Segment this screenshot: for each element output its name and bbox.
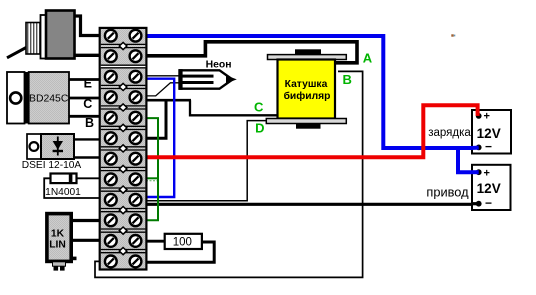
wire: black jumper row4 to row6 <box>146 100 166 138</box>
transistor U1 BD245C black bar <box>25 72 29 124</box>
terminal row 5 screws <box>105 112 142 124</box>
diode D2 1N4001 body <box>51 174 77 184</box>
svg-text:бифиляр: бифиляр <box>284 90 331 102</box>
terminal block divider with diamond <box>101 42 146 49</box>
neon lamp arrow tip <box>226 75 237 83</box>
terminal block divider with diamond <box>101 165 146 172</box>
wire: black thick from terminal row2 to coil top frame <box>146 42 357 63</box>
transistor U1 BD245C tab with hole <box>7 72 25 124</box>
svg-text:E: E <box>84 77 92 91</box>
wire: red from terminal row7 to battery1 plus <box>146 105 478 157</box>
terminal row 8 screws <box>105 173 142 185</box>
svg-text:Неон: Неон <box>206 59 232 70</box>
svg-text:C: C <box>254 100 264 115</box>
wire: node C line from row4 stub down to coil bottom flange <box>190 100 277 115</box>
terminal row 9 screws <box>105 194 142 206</box>
transistor U1 BD245C leads E C B <box>66 80 101 117</box>
neon lamp left bar <box>179 69 183 90</box>
svg-text:B: B <box>85 116 94 130</box>
svg-text:Катушка: Катушка <box>285 79 328 90</box>
terminal row 2 screws <box>105 50 142 62</box>
coil L1 top flange <box>268 55 347 60</box>
wire: blue thick from terminal row1 to batteries <box>146 36 479 172</box>
resistor R1 100 body <box>165 234 202 249</box>
terminal block divider with diamond <box>101 83 146 90</box>
svg-text:12V: 12V <box>477 181 501 196</box>
battery BT1 зарядка <box>472 110 511 154</box>
diode D1 DSEI leads <box>72 139 101 157</box>
wire: blue jumper row3 to row9 <box>146 79 174 197</box>
wire: faint dashed green <box>146 180 157 182</box>
svg-text:D: D <box>255 121 264 136</box>
svg-text:100: 100 <box>173 236 192 248</box>
transistor U1 BD245C body <box>29 72 69 124</box>
potentiometer R2 side stub <box>71 257 77 261</box>
terminal row 11 screws <box>105 235 142 247</box>
wire: node D thin line from coil bottom flange down and left to row9 wire <box>147 121 268 201</box>
transistor Q1 body <box>46 11 75 59</box>
wire: diagonal thin lead from strip row4 to neon lamp lower electrode <box>146 83 182 96</box>
wire stub blue into battery1 minus <box>471 146 479 150</box>
svg-text:зарядка: зарядка <box>428 127 471 139</box>
svg-text:привод: привод <box>426 185 469 200</box>
svg-text:+: + <box>484 111 490 123</box>
coil L1 body Катушка бифиляр <box>278 60 336 119</box>
terminal row 7 screws <box>105 153 142 165</box>
svg-text:LIN: LIN <box>49 239 66 250</box>
transistor Q1 heatsink diagonal lead <box>7 47 28 58</box>
potentiometer R2 body <box>47 214 71 262</box>
potentiometer R2 1K LIN leads to row10 row11 <box>69 221 101 241</box>
stray speck <box>451 34 453 36</box>
neon lamp electrode 1 <box>183 75 214 78</box>
potentiometer R2 bottom tab and prongs <box>53 262 66 266</box>
svg-text:1K: 1K <box>51 229 65 240</box>
coil L1 bottom flange <box>266 119 346 124</box>
terminal row 4 screws <box>105 91 142 103</box>
wire: green jumper row5 to row8 and lower <box>146 118 158 220</box>
svg-text:C: C <box>83 97 92 111</box>
resistor R1 100 left lead <box>146 240 167 243</box>
terminal block divider with diamond <box>101 104 146 111</box>
terminal block divider with diamond <box>101 186 146 193</box>
resistor R1 100 right lead loop to row12 <box>146 242 215 262</box>
svg-text:12V: 12V <box>477 126 501 141</box>
svg-text:1N4001: 1N4001 <box>45 187 81 198</box>
terminal block divider (double) <box>101 65 146 68</box>
wire: node B thin line from coil right down, along bottom, to row12 left <box>95 71 363 277</box>
terminal row 6 screws <box>105 132 142 144</box>
transistor Q1 lead top to row1 <box>73 16 101 36</box>
coil L1 bottom tab <box>296 124 321 129</box>
terminal row 1 screws <box>105 30 142 42</box>
transistor Q1 lead bottom to row2 <box>73 54 101 57</box>
svg-text:A: A <box>363 50 373 65</box>
wire: stub row4 <box>146 99 191 102</box>
neon lamp outline <box>180 70 233 88</box>
svg-text:BD245C: BD245C <box>29 94 69 105</box>
terminal row 12 screws <box>105 256 142 268</box>
diode D1 DSEI tab with hole <box>27 134 41 159</box>
terminal row 10 screws <box>105 214 142 226</box>
svg-text:+: + <box>484 167 490 179</box>
transistor Q1 mounting plate <box>41 15 47 59</box>
svg-text:B: B <box>343 72 352 87</box>
wire: thin lead from strip row3 to neon lamp top electrode <box>146 75 181 77</box>
terminal block divider with diamond <box>101 145 146 152</box>
wire: thick black row9 to battery2 minus <box>146 203 477 206</box>
diode D2 1N4001 left lead down to row9 left <box>44 178 101 198</box>
wire stub blue into battery2 plus <box>471 170 479 174</box>
svg-text:DSEI 12-10A: DSEI 12-10A <box>22 160 82 171</box>
coil L1 top tab <box>295 49 321 55</box>
diode D1 DSEI diode symbol <box>57 137 59 156</box>
terminal row 3 screws <box>105 71 142 83</box>
terminal block divider with diamond <box>101 227 146 234</box>
terminal block divider with diamond <box>101 248 146 255</box>
neon lamp NE1 <box>179 69 237 90</box>
terminal strip X1 <box>100 28 147 270</box>
diode D2 1N4001 cathode band <box>69 174 73 184</box>
wire stub black into battery2 minus <box>471 202 479 205</box>
diode D2 1N4001 right lead to row8 <box>75 177 101 179</box>
terminal block divider with diamond <box>101 207 146 214</box>
terminal block divider with diamond <box>101 124 146 131</box>
transistor Q1 heatsink ribs <box>26 23 41 55</box>
svg-text:−: − <box>485 140 492 154</box>
neon lamp electrode 2 <box>183 81 214 84</box>
diode D1 DSEI body <box>41 134 74 159</box>
battery BT2 привод <box>472 165 511 210</box>
wire stub red into battery1 plus <box>476 109 480 116</box>
svg-text:−: − <box>485 196 492 210</box>
